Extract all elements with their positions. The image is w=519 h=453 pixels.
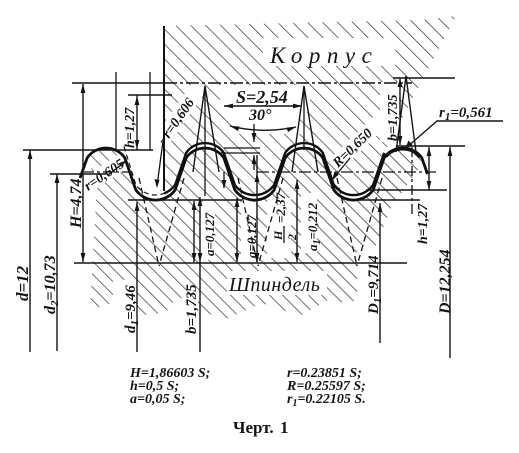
svg-text:h=1,27: h=1,27 [416,203,431,244]
dashed triangle below root 353 [337,178,382,266]
dashed housing profile ghost over left crest [124,147,164,195]
h=1,27 left extension [115,72,117,150]
crest top extension left (d line) [23,149,153,151]
dimension H/2=2,37 [256,155,258,262]
dimension H=4,74 [82,84,84,262]
dimension S=2,54 [224,105,302,107]
vertical through crest 205 [204,86,206,196]
pitch dash-dot left crest [84,171,130,173]
H bottom line [74,262,407,264]
leader r=0,605 [108,161,126,175]
small down arrow at valley 254 left [223,172,225,188]
dimension D=12,254 [449,147,451,358]
dimension d=12 [29,150,31,352]
pitch extension left (d2 line) [50,173,106,175]
dimension a=0,127 second [236,198,238,262]
h bottom extension right [366,189,447,191]
svg-text:H: H [271,230,285,241]
svg-text:Шпиндель: Шпиндель [228,274,320,296]
crest-top level line across valley 254 [224,147,260,149]
dimension a1=0,212 [296,180,298,262]
housing clearance line across valley 254 [221,152,260,154]
svg-text:D1=9,714: D1=9,714 [366,255,384,315]
bold r1 arc on right crest [386,149,421,157]
svg-text:S=2,54: S=2,54 [236,87,288,107]
fundamental triangle spike over crest 205 [193,86,219,172]
leader r1=0,561 [406,121,503,148]
vertical extension x=150 [149,72,151,150]
svg-text:Черт.1: Черт.1 [233,418,289,437]
pitch dash-dot middle-right [257,171,436,173]
apex line dash-dot [164,82,412,84]
svg-text:r1=0,561: r1=0,561 [439,105,493,123]
svg-text:a=0,127: a=0,127 [244,214,259,258]
svg-text:b=1,735: b=1,735 [386,95,401,141]
svg-text:30°: 30° [248,107,272,124]
svg-text:d=12: d=12 [13,265,32,301]
svg-text:2: 2 [285,234,299,241]
up arrow under clearance lines [253,155,255,170]
dimension h=1,27 right [428,147,430,190]
h top extension left [128,94,172,96]
label H/2=2,37 [271,192,299,243]
svg-text:d1=9,46: d1=9,46 [123,285,141,333]
white breaks in hatching for labels [77,38,399,336]
dimension b=1,735 left [199,197,201,352]
svg-text:d2=10,73: d2=10,73 [42,255,61,314]
housing thread profile (thick wave, offset) [164,143,384,195]
dimension d1=9,46 [136,202,138,352]
dimension b=1,735 right [399,78,401,145]
crest top extension right [396,145,465,147]
leader r=0,606 [157,141,163,186]
apex line solid part [72,82,164,84]
vertical through crest 304 [303,86,305,150]
svg-text:a=0,127: a=0,127 [202,212,217,256]
30 degree arc [230,126,296,130]
spindle hatched section (Шпиндель) [87,148,422,320]
svg-text:r1=0.22105 S.: r1=0.22105 S. [287,392,366,409]
dashed triangle below root 155 [139,178,184,266]
leader R=0,650 [333,158,350,179]
dimension h=1,27 left [136,95,138,150]
fundamental triangle spike over crest 304 [292,86,318,172]
dimension d2=10,73 [56,174,58,351]
svg-text:a=0,05 S;: a=0,05 S; [130,392,185,407]
dimension D1=9,714 [379,203,381,343]
right crest vertical dash-dot [411,147,413,215]
dimension a=0,127 first [193,201,195,262]
dashed triangle below root 254 [238,178,283,266]
root line right segment [355,199,420,201]
spindle thread profile (thick wave) [80,148,428,200]
root line left segment [128,199,242,201]
center arrow at root 254 [253,124,255,142]
housing left edge [163,26,165,191]
svg-text:D=12,254: D=12,254 [437,249,454,315]
housing hatched section (Корпус) [164,16,456,195]
b top extension right [393,77,455,79]
svg-text:h=1,27: h=1,27 [123,107,138,148]
svg-text:b=1,735: b=1,735 [184,284,200,334]
spike over right crest 403 [396,76,416,152]
svg-text:H=4,74: H=4,74 [68,178,85,229]
svg-text:=2,37: =2,37 [273,192,288,223]
svg-text:Корпус: Корпус [269,43,378,68]
